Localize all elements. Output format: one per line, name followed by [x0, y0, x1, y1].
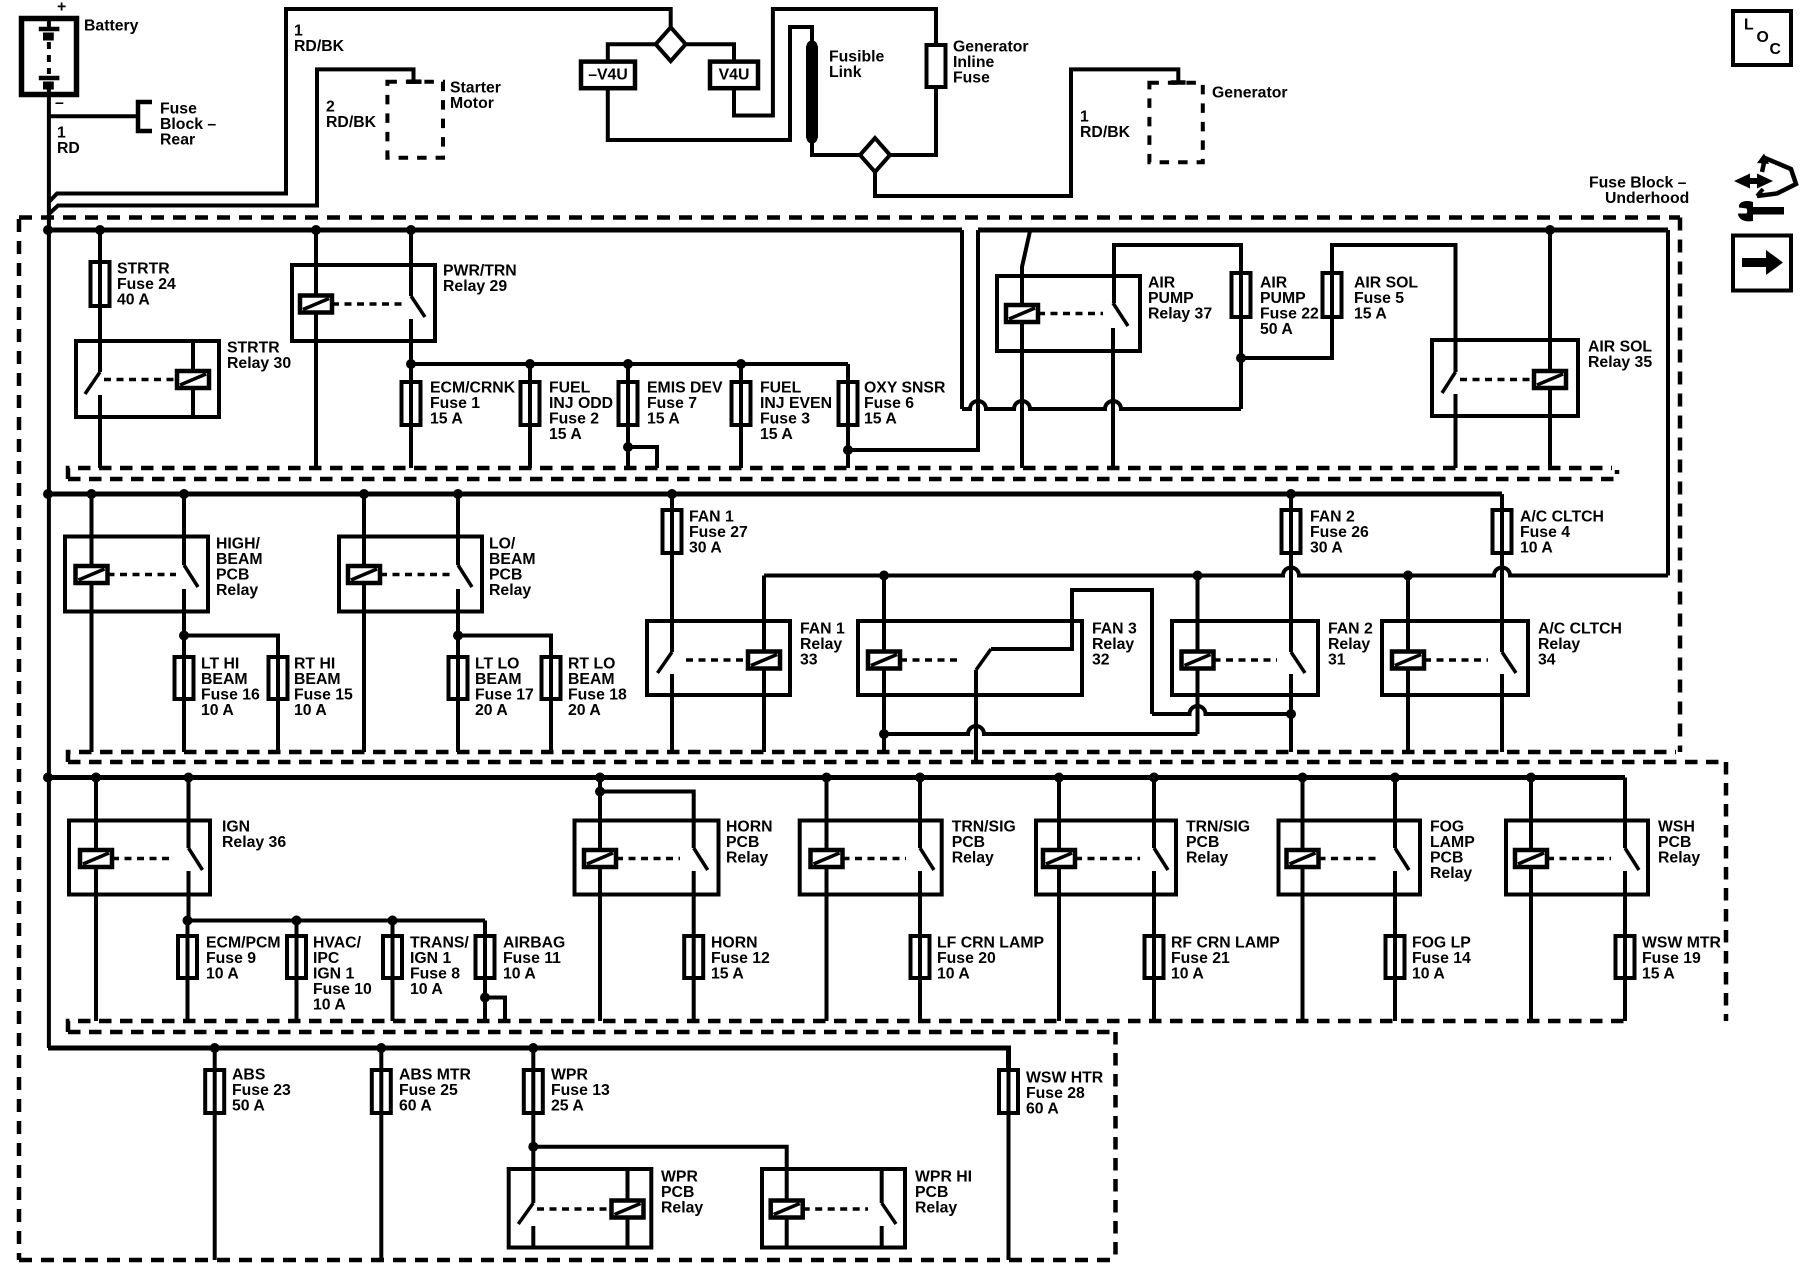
svg-text:15 A: 15 A	[864, 411, 897, 428]
svg-text:PCB: PCB	[1430, 850, 1463, 867]
label A/C CLTCH Relay 34	[1538, 621, 1622, 669]
FOG LAMP PCB Relay switch feed	[1393, 778, 1397, 849]
svg-text:WPR HI: WPR HI	[915, 1169, 972, 1186]
relay FAN 2 Relay 31 box	[1172, 621, 1318, 695]
TRN/SIG PCB Relay 1 linkage	[843, 857, 907, 861]
label 1 RD/BK generator	[1080, 109, 1131, 142]
label PWR/TRN Relay 29	[443, 263, 517, 296]
node bus1-fuse24	[95, 225, 105, 235]
WSH PCB Relay coil ground	[1529, 867, 1533, 1021]
wire to Fuse Block Rear	[50, 114, 136, 118]
svg-text:Relay: Relay	[726, 850, 768, 867]
relay 31 linkage	[1214, 658, 1278, 662]
fuse A/C CLTCH Fuse 4	[1493, 510, 1512, 553]
node bus3-trn2coil	[1054, 773, 1064, 783]
wire fuse 7 out jog	[623, 425, 657, 468]
svg-text:Relay 37: Relay 37	[1148, 306, 1212, 323]
svg-text:TRN/SIG: TRN/SIG	[952, 819, 1016, 836]
TRN/SIG PCB Relay 2 coil ground	[1057, 867, 1061, 1021]
fuse AIR PUMP Fuse 22	[1232, 273, 1251, 358]
svg-text:Battery: Battery	[84, 18, 139, 35]
relay 35 linkage	[1460, 378, 1534, 382]
svg-text:EMIS DEV: EMIS DEV	[647, 380, 723, 397]
wire fuse 11 out jog	[480, 979, 505, 1021]
wire fuse 16 out	[182, 699, 186, 752]
fuse HVAC/IPC IGN 1 Fuse 10	[287, 921, 306, 980]
wire fuse 10 out	[295, 979, 299, 1021]
bus section 3	[48, 775, 1625, 780]
TRN/SIG PCB Relay 2 switch	[1154, 848, 1168, 936]
FOG LAMP PCB Relay coil	[1287, 850, 1319, 867]
label OXY SNSR Fuse 6 15 A	[864, 380, 946, 428]
label IGN Relay 36	[222, 819, 286, 852]
relay AIR SOL Relay 35 box	[1432, 340, 1578, 416]
wire 1 RD/BK (battery to connector C100 diamond)	[49, 9, 671, 202]
label ABS MTR Fuse 25 60 A	[399, 1067, 472, 1115]
svg-text:20 A: 20 A	[568, 702, 601, 719]
node coilbus-fan2	[1193, 571, 1203, 581]
label WSW HTR Fuse 28 60 A	[1026, 1070, 1104, 1118]
fuse LT LO BEAM Fuse 17	[449, 636, 468, 700]
label V4U	[719, 67, 750, 84]
svg-text:PCB: PCB	[726, 834, 759, 851]
svg-text:30 A: 30 A	[1310, 540, 1343, 557]
relay 33 linkage	[686, 658, 748, 662]
wire horn coil ground	[598, 867, 602, 1021]
svg-text:Relay: Relay	[952, 850, 994, 867]
fusible link F1	[806, 41, 818, 144]
svg-text:PCB: PCB	[915, 1184, 948, 1201]
svg-text:50 A: 50 A	[1260, 321, 1293, 338]
label RT HI BEAM Fuse 15 10 A	[294, 656, 353, 720]
svg-text:Generator: Generator	[1212, 85, 1288, 102]
svg-text:STRTR: STRTR	[117, 261, 170, 278]
node bus3-left	[43, 773, 53, 783]
node fusefeed-f1	[406, 359, 416, 369]
bus section 2	[48, 492, 1502, 497]
fuse RF CRN LAMP Fuse 21	[1145, 936, 1164, 979]
svg-text:FAN 3: FAN 3	[1092, 621, 1137, 638]
wire fuse 18 out	[549, 699, 553, 752]
node bus1b-relay35coil	[1545, 225, 1555, 235]
svg-text:AIR: AIR	[1260, 275, 1288, 292]
relay HORN PCB Relay box	[575, 821, 719, 895]
component box Starter Motor (dashed)	[387, 82, 443, 158]
wire fuse 1	[409, 364, 413, 382]
node lo beam out	[453, 631, 463, 641]
generator tab	[1171, 80, 1186, 85]
wire relay 32 switch contact loop	[991, 590, 1152, 714]
section divider strip 3 (dashed)	[68, 1021, 1632, 1032]
label AIR PUMP Relay 37	[1148, 275, 1212, 323]
svg-text:15 A: 15 A	[760, 426, 793, 443]
label FOG LAMP PCB Relay	[1430, 819, 1475, 883]
svg-text:Relay: Relay	[1186, 850, 1228, 867]
label AIR SOL Fuse 5 15 A	[1354, 275, 1418, 323]
relay WSH PCB Relay box	[1506, 821, 1648, 895]
svg-text:TRN/SIG: TRN/SIG	[1186, 819, 1250, 836]
wire right bus down to section 2 coil bus	[1666, 230, 1670, 576]
svg-text:1: 1	[294, 23, 303, 40]
wire high beam coil feed	[90, 494, 94, 566]
wire fuse 26 to relay 31	[1289, 553, 1293, 652]
svg-text:Fusible: Fusible	[829, 49, 885, 66]
fuse TRANS/IGN 1 Fuse 8	[383, 921, 402, 980]
svg-text:15 A: 15 A	[430, 411, 463, 428]
svg-text:15 A: 15 A	[711, 966, 744, 983]
wire WSW MTR Fuse 19 out	[1623, 979, 1627, 1021]
label WPR Fuse 13 25 A	[551, 1067, 610, 1115]
FOG LAMP PCB Relay linkage	[1319, 857, 1382, 861]
svg-text:32: 32	[1092, 652, 1110, 669]
node bus2-highcoil	[87, 489, 97, 499]
svg-text:Fuse 6: Fuse 6	[864, 395, 914, 412]
label 1 RD	[57, 125, 80, 158]
fuse ABS Fuse 23	[205, 1070, 224, 1113]
fuse FUEL INJ ODD Fuse 2	[521, 382, 540, 425]
wire fuse 25 feed	[379, 1048, 383, 1070]
label WSW MTR Fuse 19	[1642, 935, 1722, 983]
label Generator	[1212, 85, 1288, 102]
label ECM/PCM Fuse 9 10 A	[206, 935, 281, 983]
svg-text:PUMP: PUMP	[1260, 290, 1306, 307]
wire diamond to -V4U	[608, 44, 656, 61]
wire relay 32 coil ground	[879, 669, 889, 753]
relay 37 switch	[1113, 303, 1128, 468]
label STRTR Fuse 24 40 A	[117, 261, 176, 309]
fuse block underhood dashed border bottom	[19, 1258, 1116, 1263]
relay 32 linkage	[900, 658, 962, 662]
node bus1-relay29switch	[406, 225, 416, 235]
wire fuse 4 feed	[1500, 494, 1504, 510]
label Fuse Block - Rear	[160, 101, 216, 149]
WPR relay coil	[612, 1169, 644, 1248]
wire fuse 23 feed	[213, 1048, 217, 1070]
label FUEL INJ EVEN Fuse 3 15 A	[760, 380, 832, 444]
wire gen inline fuse to diamond C2	[890, 87, 936, 155]
svg-text:Fuse 13: Fuse 13	[551, 1082, 610, 1099]
relay 35 coil	[1534, 371, 1566, 388]
fuse AIR SOL Fuse 5	[1323, 273, 1342, 317]
WSH PCB Relay switch feed	[1623, 778, 1627, 849]
FOG LAMP PCB Relay switch	[1395, 848, 1409, 936]
svg-text:Relay: Relay	[1430, 865, 1472, 882]
fuse WSW MTR Fuse 19	[1616, 936, 1635, 979]
icon LOC box	[1733, 11, 1791, 65]
wire fuse 23 out	[213, 1113, 217, 1260]
label LT HI BEAM Fuse 16 10 A	[201, 656, 260, 720]
wire fuse 27 to relay 33	[670, 553, 674, 652]
svg-text:HORN: HORN	[726, 819, 773, 836]
svg-text:10 A: 10 A	[503, 966, 536, 983]
svg-text:10 A: 10 A	[313, 997, 346, 1014]
wire fuse 22 to relay 37 switch	[1114, 245, 1241, 303]
TRN/SIG PCB Relay 2 coil feed	[1057, 778, 1061, 851]
fuse block underhood dashed border left	[17, 219, 22, 1260]
svg-text:WPR: WPR	[661, 1169, 698, 1186]
node bus3-wshcoil	[1526, 773, 1536, 783]
svg-text:AIR SOL: AIR SOL	[1354, 275, 1418, 292]
wire fuse 26 feed	[1289, 494, 1293, 510]
node bus3-fogcoil	[1298, 773, 1308, 783]
relay 31 switch	[1291, 652, 1305, 752]
node bus3-igncoil	[91, 773, 101, 783]
WPR relay switch	[518, 1203, 533, 1248]
svg-text:Fuse 7: Fuse 7	[647, 395, 697, 412]
svg-text:Relay: Relay	[915, 1200, 957, 1217]
WPR HI relay switch	[882, 1169, 896, 1248]
fuse WPR Fuse 13	[524, 1070, 543, 1113]
wire fuse 24 to relay 30	[98, 306, 102, 372]
wire horn switch feed	[600, 792, 694, 849]
svg-text:–V4U: –V4U	[588, 67, 628, 84]
svg-text:IGN 1: IGN 1	[313, 966, 354, 983]
node bus3-fogswitch	[1390, 773, 1400, 783]
svg-text:V4U: V4U	[719, 67, 750, 84]
node bus2-locoil	[359, 489, 369, 499]
high beam relay switch	[184, 565, 198, 636]
ign relay linkage	[112, 857, 174, 861]
svg-text:1: 1	[1080, 109, 1089, 126]
label FAN 2 Fuse 26 30 A	[1310, 509, 1369, 557]
svg-text:60 A: 60 A	[399, 1098, 432, 1115]
svg-text:Fuse 5: Fuse 5	[1354, 290, 1404, 307]
label FAN 3 Relay 32	[1092, 621, 1137, 669]
wire relay 37 coil ground	[1020, 322, 1024, 468]
svg-text:Fuse 9: Fuse 9	[206, 950, 256, 967]
svg-text:WPR: WPR	[551, 1067, 588, 1084]
fuse STRTR Fuse 24	[91, 262, 110, 306]
wire fuse 11 feed	[483, 921, 487, 937]
relay FOG LAMP PCB Relay box	[1279, 821, 1421, 895]
section 4 dashed border right	[1113, 1032, 1118, 1260]
svg-text:Fuse 27: Fuse 27	[689, 524, 748, 541]
svg-text:HORN: HORN	[711, 935, 758, 952]
svg-text:PCB: PCB	[952, 834, 985, 851]
label TRANS/IGN 1 Fuse 8 10 A	[410, 935, 469, 999]
connector diamond C2	[860, 138, 890, 172]
svg-text:RD/BK: RD/BK	[1080, 124, 1131, 141]
svg-text:WSH: WSH	[1658, 819, 1695, 836]
svg-text:Underhood: Underhood	[1605, 190, 1689, 207]
svg-text:Relay 35: Relay 35	[1588, 354, 1652, 371]
svg-text:WSW HTR: WSW HTR	[1026, 1070, 1104, 1087]
svg-text:40 A: 40 A	[117, 292, 150, 309]
svg-text:Fuse 2: Fuse 2	[549, 411, 599, 428]
node fusefeed-f2	[525, 359, 535, 369]
svg-text:AIR SOL: AIR SOL	[1588, 339, 1652, 356]
svg-text:Relay 36: Relay 36	[222, 834, 286, 851]
TRN/SIG PCB Relay 1 switch	[920, 848, 934, 936]
svg-text:PCB: PCB	[216, 567, 249, 584]
wire lo beam coil ground	[362, 583, 366, 752]
svg-text:RD: RD	[57, 140, 80, 157]
icon curved arrow	[1757, 154, 1796, 197]
svg-text:Fuse 18: Fuse 18	[568, 687, 627, 704]
label WPR HI PCB Relay	[915, 1169, 972, 1217]
svg-text:RD/BK: RD/BK	[326, 114, 377, 131]
section divider strip 1 (dashed)	[68, 468, 1617, 479]
wire relay 35 coil ground	[1548, 388, 1552, 468]
fuse FUEL INJ EVEN Fuse 3	[732, 382, 751, 425]
relay 29 coil	[300, 296, 332, 313]
bus section 1 left (battery feed)	[48, 228, 962, 233]
label LO/BEAM PCB Relay	[489, 536, 536, 600]
label 2 RD/BK	[326, 99, 377, 132]
relay FAN 3 Relay 32 box	[858, 621, 1082, 695]
label FUEL INJ ODD Fuse 2 15 A	[549, 380, 613, 444]
relay 35 switch	[1442, 372, 1456, 468]
relay 34 switch	[1502, 652, 1516, 752]
component box Generator (dashed)	[1149, 83, 1202, 162]
fuse ECM/CRNK Fuse 1	[402, 382, 421, 425]
label HIGH/BEAM PCB Relay	[216, 536, 263, 600]
svg-text:FOG: FOG	[1430, 819, 1464, 836]
wire fuse 28 out	[1007, 1113, 1011, 1260]
connector diamond C1	[656, 27, 686, 61]
svg-text:ECM/PCM: ECM/PCM	[206, 935, 281, 952]
WSH PCB Relay linkage	[1547, 857, 1611, 861]
relay HIGH/BEAM PCB Relay box	[65, 537, 208, 612]
svg-text:Relay: Relay	[489, 582, 531, 599]
label FAN 1 Relay 33	[800, 621, 845, 669]
TRN/SIG PCB Relay 2 switch feed	[1152, 778, 1156, 849]
fuse FAN 1 Fuse 27	[663, 510, 682, 553]
svg-text:BEAM: BEAM	[201, 671, 248, 688]
svg-text:Fuse 12: Fuse 12	[711, 950, 770, 967]
svg-text:15 A: 15 A	[1642, 966, 1675, 983]
label Fusible Link	[829, 49, 885, 82]
wire fusible link to diamond C2	[812, 138, 860, 155]
section divider strip 2 (dashed)	[68, 752, 1726, 762]
wire fuse 7	[626, 364, 630, 382]
svg-text:Fuse 19: Fuse 19	[1642, 950, 1701, 967]
svg-text:Relay: Relay	[216, 582, 258, 599]
relay 32 switch	[976, 649, 991, 762]
svg-text:Relay 29: Relay 29	[443, 278, 507, 295]
node fusefeed-f7	[623, 359, 633, 369]
relay 31 coil	[1182, 652, 1214, 669]
svg-text:+: +	[57, 0, 66, 16]
svg-text:10 A: 10 A	[294, 702, 327, 719]
svg-text:HVAC/: HVAC/	[313, 935, 362, 952]
label FAN 1 Fuse 27 30 A	[689, 509, 748, 557]
wire fuse 2	[528, 364, 532, 382]
wire fuse 6 feed	[846, 364, 850, 382]
svg-text:10 A: 10 A	[410, 981, 443, 998]
battery plates	[39, 19, 60, 95]
node ign out	[183, 916, 193, 926]
TRN/SIG PCB Relay 1 coil ground	[825, 867, 829, 1021]
svg-text:LT LO: LT LO	[475, 656, 519, 673]
fuse block underhood dashed border top	[19, 215, 1680, 220]
terminal box -V4U	[581, 62, 635, 89]
svg-text:RF CRN LAMP: RF CRN LAMP	[1171, 935, 1280, 952]
svg-text:Fuse 28: Fuse 28	[1026, 1085, 1085, 1102]
wire battery sub-feed right	[960, 230, 964, 409]
label Generator Inline Fuse	[953, 39, 1029, 87]
svg-text:AIR: AIR	[1148, 275, 1176, 292]
node bus4-fuse23	[210, 1043, 220, 1053]
node bus2-loswitch	[453, 489, 463, 499]
node high beam out	[179, 631, 189, 641]
wire relay 32 coil feed	[882, 576, 886, 652]
label HORN Fuse 12 15 A	[711, 935, 770, 983]
svg-text:Fuse: Fuse	[953, 70, 990, 87]
svg-text:Fuse 4: Fuse 4	[1520, 524, 1570, 541]
horn relay linkage	[616, 857, 680, 861]
relay 33 coil	[748, 652, 780, 669]
node bus2-fuse26	[1286, 489, 1296, 499]
svg-text:HIGH/: HIGH/	[216, 536, 260, 553]
node bus1-relay29coil	[311, 225, 321, 235]
relay 34 linkage	[1424, 658, 1488, 662]
svg-text:PUMP: PUMP	[1148, 290, 1194, 307]
svg-text:Fuse 25: Fuse 25	[399, 1082, 458, 1099]
relay STRTR Relay 30 box	[76, 341, 219, 417]
svg-text:FUEL: FUEL	[549, 380, 591, 397]
wire ign switch feed	[187, 778, 191, 849]
svg-text:–: –	[55, 95, 64, 112]
wire relay 35 coil feed	[1548, 230, 1552, 371]
label LF CRN LAMP Fuse 20	[937, 935, 1044, 983]
wire RF CRN LAMP Fuse 21 out	[1152, 979, 1156, 1021]
svg-text:Relay: Relay	[1092, 636, 1134, 653]
relay PWR/TRN Relay 29 box	[292, 265, 435, 341]
label AIRBAG Fuse 11 10 A	[503, 935, 565, 983]
svg-text:2: 2	[326, 99, 335, 116]
fuse RT HI BEAM Fuse 15	[269, 657, 288, 699]
svg-text:60 A: 60 A	[1026, 1101, 1059, 1118]
TRN/SIG PCB Relay 2 coil	[1043, 850, 1075, 867]
bus section 1 right	[978, 228, 1668, 233]
svg-text:RT LO: RT LO	[568, 656, 615, 673]
svg-text:Fuse 11: Fuse 11	[503, 950, 561, 967]
label A/C CLTCH Fuse 4 10 A	[1520, 509, 1604, 557]
svg-text:Fuse 22: Fuse 22	[1260, 306, 1319, 323]
TRN/SIG PCB Relay 2 linkage	[1075, 857, 1140, 861]
node air fuse junction	[1236, 353, 1246, 363]
WSH PCB Relay coil	[1515, 850, 1547, 867]
svg-text:INJ ODD: INJ ODD	[549, 395, 613, 412]
label ECM/CRNK Fuse 1 15 A	[430, 380, 516, 428]
svg-text:10 A: 10 A	[1520, 540, 1553, 557]
wire fuse 9 out	[186, 979, 190, 1021]
svg-text:Fuse Block –: Fuse Block –	[1589, 175, 1687, 192]
wire fuse 25 out	[379, 1113, 383, 1260]
wire diamond C2 to generator	[875, 69, 1178, 196]
bus section 2 coil feed	[764, 568, 1668, 576]
wire air fuse junction riser	[1239, 358, 1243, 409]
wire coil ground link	[884, 726, 1198, 734]
svg-text:10 A: 10 A	[206, 966, 239, 983]
wire fuse 15 out	[276, 699, 280, 752]
high beam relay linkage	[108, 573, 177, 577]
bus section 4	[48, 1048, 1009, 1070]
WPR HI relay coil	[771, 1201, 803, 1248]
node coilbus-ac	[1403, 571, 1413, 581]
node bus3-ignswitch	[184, 773, 194, 783]
svg-text:Fuse 3: Fuse 3	[760, 411, 810, 428]
svg-text:IGN 1: IGN 1	[410, 950, 451, 967]
label HORN PCB Relay	[726, 819, 773, 867]
relay 37 coil	[1006, 305, 1038, 322]
wire relay 29 switch feed	[409, 230, 413, 296]
svg-text:Fuse 15: Fuse 15	[294, 687, 353, 704]
wire lo beam coil feed	[362, 494, 366, 566]
svg-text:FAN 1: FAN 1	[800, 621, 845, 638]
wire air pump feed horizontal	[962, 401, 1241, 409]
